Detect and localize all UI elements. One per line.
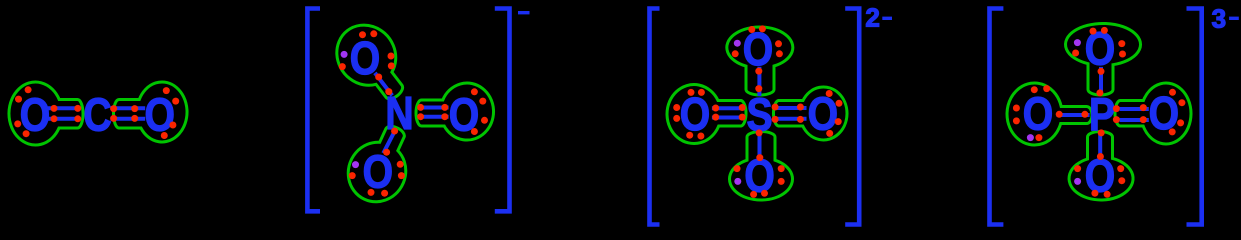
svg-text:O: O — [680, 89, 710, 141]
svg-text:O: O — [808, 89, 838, 141]
svg-text:2: 2 — [865, 2, 879, 32]
svg-text:3: 3 — [1212, 3, 1226, 33]
svg-text:O: O — [1023, 89, 1053, 141]
svg-text:O: O — [144, 90, 174, 142]
svg-text:N: N — [385, 88, 413, 140]
svg-text:C: C — [83, 90, 111, 142]
svg-text:O: O — [1085, 23, 1115, 75]
